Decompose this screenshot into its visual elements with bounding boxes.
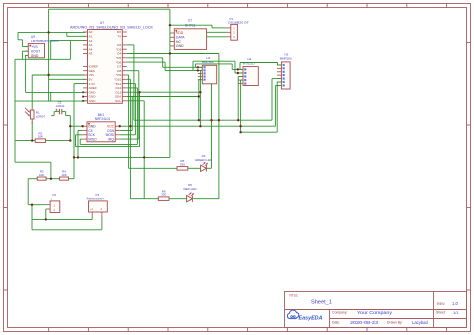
wire H1 bottom to green LED <box>211 84 213 169</box>
junction <box>69 139 71 141</box>
svg-text:Drawn By:: Drawn By: <box>387 321 403 325</box>
svg-text:VDD: VDD <box>176 31 184 35</box>
title block <box>285 292 467 328</box>
regulator U9 LM7805 <box>25 35 59 58</box>
wire D11 column <box>134 84 136 135</box>
wire A2 <box>51 40 86 42</box>
wire DHT VDD to P1 <box>170 24 212 26</box>
wire CSN <box>120 130 133 132</box>
wire P2 pin2 <box>46 208 47 210</box>
photoresistor R1 LDR07 <box>25 108 45 124</box>
wire <box>276 82 278 132</box>
wire <box>164 62 166 70</box>
wire D8 <box>127 70 139 72</box>
sensor H2 HTU21D <box>239 57 259 85</box>
wire P3 pin1 <box>91 217 93 220</box>
wire <box>50 162 52 179</box>
wire H1 pin5 <box>199 79 203 81</box>
wire C3 left <box>54 111 59 113</box>
svg-text:A5: A5 <box>89 52 93 56</box>
svg-text:10K: 10K <box>38 135 43 139</box>
wire <box>18 39 22 41</box>
junction <box>218 119 220 121</box>
wire <box>75 135 77 147</box>
svg-text:10K: 10K <box>39 173 44 177</box>
junction <box>199 125 201 127</box>
wire <box>234 61 236 73</box>
svg-text:GND: GND <box>31 54 39 58</box>
wire H3 pin1 <box>278 64 282 66</box>
junction <box>198 95 200 97</box>
svg-text:TITLE:: TITLE: <box>289 294 299 298</box>
wire R3-R4 <box>46 178 60 180</box>
wire <box>15 161 51 163</box>
svg-text:1.0: 1.0 <box>452 301 458 306</box>
wire H3 pin6 <box>277 81 281 83</box>
wire R6 left <box>130 198 158 200</box>
wire link H1-H2 a <box>195 63 232 65</box>
wire P1 pin3 <box>207 36 227 38</box>
junction <box>119 125 121 127</box>
wire <box>21 51 23 59</box>
wire <box>240 80 242 132</box>
wire <box>237 77 239 121</box>
junction <box>198 119 200 121</box>
junction <box>77 156 79 158</box>
wire <box>53 112 55 116</box>
svg-text:Date:: Date: <box>332 321 340 325</box>
wire bottom rail 1 <box>32 218 92 220</box>
svg-text:1/1: 1/1 <box>453 310 459 315</box>
capacitor C3 100uF <box>55 100 64 114</box>
svg-text:2020-08-23: 2020-08-23 <box>350 320 379 325</box>
wire <box>231 64 233 70</box>
wire SDA row long <box>127 96 199 98</box>
wire 3V3 row <box>74 83 85 85</box>
wire <box>79 139 81 144</box>
wire D8 column <box>138 71 140 139</box>
wire MISO <box>80 138 82 140</box>
wire R5 to D4 <box>188 167 201 169</box>
sensor H1 BMP180 <box>198 56 217 84</box>
sensor H3 BMP280 <box>277 52 292 89</box>
wire <box>66 32 68 36</box>
junction <box>31 139 33 141</box>
svg-text:HTU21D: HTU21D <box>243 61 256 65</box>
wire <box>45 209 47 219</box>
wire H3 pin7 <box>275 85 281 87</box>
wire D12 column <box>136 88 138 144</box>
wire <box>277 63 279 66</box>
junction <box>197 69 199 71</box>
wire to NRF GND <box>70 125 82 127</box>
wire H2 pin1 <box>232 68 243 70</box>
wire SCK <box>76 134 83 136</box>
MCU U1 ARDUINO_R3_SHIELD <box>70 21 154 103</box>
svg-text:NRF24L01: NRF24L01 <box>95 117 111 121</box>
wire R6 to D5 <box>169 198 187 200</box>
connector P1 DS18B20 <box>226 17 249 40</box>
wire P1 pin2 <box>207 31 227 33</box>
EasyEDA logo <box>287 310 322 321</box>
junction <box>239 125 241 127</box>
wire bottom rail 2 <box>32 229 102 231</box>
wire R4 right <box>69 178 75 180</box>
wire <box>211 25 213 28</box>
wire CE <box>78 130 83 132</box>
led D4 green <box>201 162 208 171</box>
svg-text:330: 330 <box>180 162 185 166</box>
wire D13 row <box>127 91 201 93</box>
connector P3 Antenna screw <box>87 193 108 217</box>
wire D2 <box>127 44 134 46</box>
wire H3 pin5 <box>272 78 281 80</box>
wire <box>70 41 72 60</box>
wire P1 pin1 <box>212 27 226 29</box>
wire <box>65 112 67 116</box>
wire <box>198 80 200 121</box>
svg-text:REV:: REV: <box>437 302 445 306</box>
wire MOSI <box>120 134 136 136</box>
sensor U7 DHT11 <box>170 19 207 50</box>
wire <box>271 79 273 121</box>
wire <box>139 92 141 146</box>
junction <box>73 156 75 158</box>
wire LDR bottom <box>31 121 33 141</box>
wire <box>50 41 52 60</box>
wire C3 tail <box>51 115 54 117</box>
wire <box>77 131 79 158</box>
junction <box>47 31 49 33</box>
wire U9 VOUT <box>22 50 28 52</box>
junction <box>31 204 33 206</box>
svg-text:Your Company: Your Company <box>357 310 393 315</box>
svg-text:Lacybad: Lacybad <box>412 320 429 325</box>
svg-text:EasyEDA: EasyEDA <box>299 315 323 321</box>
junction <box>129 125 131 127</box>
wire P3 pin2 <box>101 217 103 230</box>
junction <box>69 125 71 127</box>
wire link H1-H2 b <box>193 60 235 62</box>
wire R3 left <box>28 178 37 180</box>
svg-text:RED LED: RED LED <box>183 187 197 191</box>
wire <box>31 205 33 230</box>
led D5 red <box>187 193 194 202</box>
wire VIN row <box>32 74 85 76</box>
svg-text:GREEN LED: GREEN LED <box>195 158 213 162</box>
wire U9 GND <box>26 54 29 56</box>
svg-text:10K: 10K <box>61 173 66 177</box>
wire long left vertical <box>14 59 16 162</box>
wire <box>274 86 276 127</box>
svg-text:BMP280: BMP280 <box>280 57 292 61</box>
svg-text:GND: GND <box>89 99 97 103</box>
wire GND1 row <box>26 91 86 93</box>
wire <box>194 64 196 67</box>
svg-text:ARDUINO_R3_SHIELDUNO_R3_SHIELD: ARDUINO_R3_SHIELDUNO_R3_SHIELD_LOCK <box>70 25 154 29</box>
svg-text:Antenna screw +: Antenna screw + <box>87 197 105 201</box>
wire D6 <box>127 61 165 63</box>
resistor R5 <box>177 159 188 170</box>
junction <box>237 119 239 121</box>
wire SCL <box>127 100 144 102</box>
wire link H2-H3 <box>240 62 278 64</box>
junction <box>169 52 171 54</box>
wire D11 <box>127 83 136 85</box>
svg-text:DS18B20 DT: DS18B20 DT <box>228 20 249 24</box>
wire P2 pin1 <box>28 204 47 206</box>
wire <box>50 92 52 101</box>
connector P2 <box>47 193 60 213</box>
junction <box>199 91 201 93</box>
wire D12 <box>127 87 138 89</box>
wire D4 row <box>127 53 219 55</box>
wire vertical left bus <box>48 9 50 101</box>
wire <box>15 58 71 60</box>
resistor R4 <box>60 169 69 180</box>
wire <box>17 32 19 39</box>
wire H2 pin4 <box>241 79 243 81</box>
wire <box>27 179 29 205</box>
svg-text:SCL: SCL <box>115 99 121 103</box>
wire 5V row <box>49 78 86 80</box>
wire SCL column long <box>143 101 145 199</box>
junction <box>169 24 171 26</box>
svg-text:IRQ: IRQ <box>108 137 114 141</box>
wire D5 out <box>193 198 219 200</box>
wire GND3 row <box>15 100 85 102</box>
resistor R2 <box>35 131 45 142</box>
wire H2 pin3 <box>238 76 243 78</box>
svg-text:GND: GND <box>176 44 184 48</box>
junction <box>81 125 83 127</box>
wire LDR top <box>31 75 33 108</box>
wire D4 out <box>206 167 211 169</box>
resistor R3 <box>37 169 46 180</box>
resistor R6 <box>158 189 169 200</box>
wire 3V3 column <box>73 84 75 179</box>
wire D9 <box>127 74 129 76</box>
svg-text:LDR07: LDR07 <box>36 115 46 119</box>
junction <box>197 66 199 68</box>
wire D10 <box>127 78 131 80</box>
wire D5 <box>127 57 163 59</box>
junction <box>143 156 145 158</box>
wire <box>162 58 164 68</box>
wire C3 right <box>62 111 66 113</box>
wire wrap 1 <box>80 143 137 145</box>
svg-text:+VS: +VS <box>31 45 38 49</box>
wire <box>25 55 27 92</box>
wire wrap 2 <box>76 146 140 148</box>
svg-text:100uF: 100uF <box>56 104 65 108</box>
svg-text:330: 330 <box>161 193 166 197</box>
wire IRQ <box>120 138 139 140</box>
junction <box>210 119 212 121</box>
svg-text:Sheet_1: Sheet_1 <box>311 300 332 306</box>
svg-text:MISO: MISO <box>88 137 97 141</box>
junction <box>239 131 241 133</box>
wire net top loop <box>49 8 170 10</box>
junction <box>45 218 47 220</box>
wire H1 pin1 <box>163 66 203 68</box>
wire bus3 <box>241 131 278 133</box>
junction <box>237 68 239 70</box>
wire H2 pin2 <box>235 72 243 74</box>
wire red LED column <box>129 79 131 198</box>
wire red LED right column <box>218 54 220 199</box>
svg-text:U?: U? <box>188 19 192 23</box>
wire <box>239 63 241 70</box>
wire I2C bus 2 <box>120 125 276 127</box>
junction <box>47 74 49 76</box>
wire <box>21 40 23 47</box>
wire LED rail <box>74 156 170 158</box>
junction <box>50 178 52 180</box>
svg-text:Company:: Company: <box>332 311 348 315</box>
svg-text:P2: P2 <box>53 193 57 197</box>
wire <box>66 115 71 117</box>
wire <box>199 70 201 126</box>
wire SDA column <box>131 97 133 131</box>
junction <box>138 91 140 93</box>
svg-text:Sheet:: Sheet: <box>436 311 446 315</box>
module MK1 NRF24L01 <box>83 113 120 142</box>
wire A0 row <box>18 31 85 33</box>
wire R5 left <box>129 167 177 169</box>
wire green LED column <box>128 75 130 168</box>
wire I2C bus 1 <box>134 119 272 121</box>
wire R2 row <box>15 140 35 142</box>
wire vertical DHT column <box>169 9 171 157</box>
wire C3 bottom column <box>69 116 71 141</box>
wire A1 <box>67 35 86 37</box>
wire <box>192 61 194 70</box>
wire R2 right <box>46 140 71 142</box>
wire U9 +VS <box>22 46 28 48</box>
wire H1 pin2 <box>165 69 202 71</box>
wire bus1 column <box>133 45 135 120</box>
svg-text:TX: TX <box>117 35 121 39</box>
junction <box>237 72 239 74</box>
